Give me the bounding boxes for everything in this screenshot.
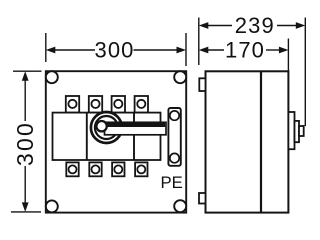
front view: enclosure outline	[46, 71, 186, 212]
front view: corner screw bottom-right	[174, 200, 186, 212]
dimension 300 horizontal: right arrow	[177, 47, 187, 54]
svg-text:PE: PE	[161, 173, 183, 192]
svg-text:239: 239	[235, 13, 275, 38]
switch top terminal 2 screw	[91, 100, 99, 108]
dimension 239: right arrow	[296, 22, 306, 29]
switch bottom terminal 1 screw	[69, 165, 77, 173]
dimension 300 vertical: extension line top	[13, 70, 42, 72]
side view: enclosure box	[206, 71, 289, 212]
PE strip screw bottom	[170, 153, 179, 162]
switch bottom terminal 4	[135, 162, 147, 176]
dimension 170: right arrow	[279, 47, 289, 54]
handle pivot small circle	[96, 121, 106, 131]
dimension 239: left arrow	[199, 22, 209, 29]
dimension 300 horizontal: dim line right segment	[134, 49, 178, 51]
switch body right divider	[133, 113, 135, 160]
switch top terminal 3 screw	[114, 100, 122, 108]
switch body	[53, 113, 161, 160]
switch top terminal 4 screw	[137, 100, 145, 108]
dimension 170: left arrow	[199, 47, 209, 54]
side view: handle step 1	[288, 112, 294, 149]
switch bottom terminal 3	[112, 162, 124, 176]
switch top terminal 1	[66, 96, 79, 113]
switch top terminal 3	[112, 96, 125, 113]
front view: corner screw bottom-left	[46, 200, 58, 212]
svg-text:170: 170	[225, 38, 265, 63]
side view: handle step 2	[295, 121, 300, 142]
switch bottom terminal 4 screw	[137, 165, 145, 173]
dimension 170: dim line left segment	[208, 49, 225, 51]
rotary handle middle ring	[95, 116, 118, 139]
dimension 239: extension line right	[304, 18, 306, 127]
switch bottom terminal 3 screw	[114, 165, 122, 173]
dimension 300 horizontal: dim line left segment	[55, 49, 96, 51]
dimension 300 vertical: bottom arrow	[22, 202, 29, 212]
dimension 239: dim line left segment	[208, 25, 233, 27]
dimension 300 vertical: top arrow	[22, 71, 29, 81]
rotary handle outer ring	[91, 112, 122, 143]
switch top terminal 4	[135, 96, 148, 113]
svg-text:300: 300	[94, 38, 134, 63]
dimension 170: dim line right segment	[266, 49, 280, 51]
side view: wall tab bottom	[199, 193, 206, 204]
switch body left divider	[86, 113, 88, 160]
side view: lid joint line	[260, 71, 262, 212]
PE terminal strip	[168, 108, 180, 166]
switch top terminal 1 screw	[68, 100, 76, 108]
switch top terminal 2	[89, 96, 102, 113]
switch bottom terminal 2	[89, 162, 101, 176]
front view: corner screw top-left	[46, 71, 58, 83]
side view: wall tab top	[199, 78, 205, 91]
dimension 300 horizontal: extension line right	[185, 33, 187, 66]
side view: handle step 3	[299, 126, 304, 136]
dimension 170: extension line right	[287, 39, 289, 72]
dimension 300 vertical: extension line bottom	[11, 211, 41, 213]
svg-text:300: 300	[12, 121, 38, 166]
switch bottom terminal 1	[66, 162, 78, 176]
dimension 300 vertical: dim line top segment	[24, 80, 26, 122]
switch bottom terminal 2 screw	[92, 165, 100, 173]
dimension 239: extension line left	[198, 18, 200, 66]
PE strip screw top	[170, 111, 179, 120]
dimension 300 vertical: dim line bottom segment	[24, 166, 26, 204]
handle lever bar	[105, 122, 167, 135]
front view: corner screw top-right	[174, 71, 186, 83]
dimension 300 horizontal: extension line left	[45, 33, 47, 62]
dimension 239: dim line right segment	[277, 25, 297, 27]
handle lever bar top face (thick)	[107, 122, 165, 127]
dimension 300 horizontal: left arrow	[46, 47, 56, 54]
